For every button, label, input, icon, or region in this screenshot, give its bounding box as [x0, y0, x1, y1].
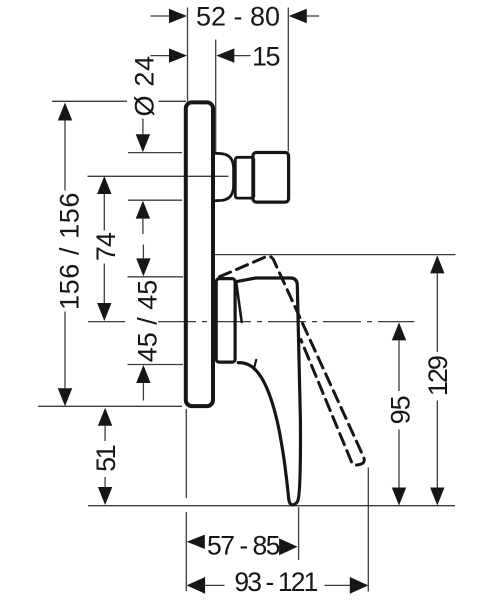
- dimension 15 arrow left: [169, 48, 187, 62]
- dimension 95 arrow bottom: [392, 488, 406, 506]
- extension line handle top y276.8: [128, 276, 184, 278]
- baseline y505.7: [88, 505, 455, 507]
- handle underside tick: [254, 360, 256, 370]
- escutcheon plate: [186, 102, 213, 406]
- dimension 15 arrow right: [216, 48, 234, 62]
- knob cap: [253, 153, 289, 203]
- dimension 57-85 arrow left: [187, 535, 205, 549]
- dimension 45/45 stem bottom: [142, 383, 144, 401]
- svg-text:57 - 85: 57 - 85: [207, 530, 280, 560]
- dimension 93-121 arrow left: [187, 577, 206, 594]
- extension line sleeve base x215.7: [215, 40, 217, 154]
- dimension dia24 stem top: [142, 119, 144, 135]
- svg-text:15: 15: [252, 41, 280, 71]
- dimension 74 line: [103, 194, 105, 303]
- knob ring: [235, 157, 254, 198]
- extension line bottom-left x186.3: [185, 409, 187, 591]
- dimension 57-85 arrow right: [279, 538, 298, 555]
- svg-text:52 - 80: 52 - 80: [196, 2, 280, 32]
- dimension 74 arrow top: [97, 176, 111, 194]
- dimension 156/156 arrow top: [58, 103, 72, 121]
- svg-text:93 - 121: 93 - 121: [234, 567, 317, 597]
- dimension 15 leader left: [151, 55, 170, 57]
- extension line handle tip x298.6: [298, 507, 300, 560]
- dimension 156/156 arrow bottom: [58, 388, 72, 406]
- dimension 45/45 stem top: [142, 245, 144, 259]
- dimension 52-80 leader left: [151, 15, 170, 17]
- dimension 45/45 arrow top: [136, 258, 150, 276]
- extension line plate back x187: [187, 8, 189, 102]
- dimension 95 line: [398, 340, 400, 487]
- dimension 51 line: [104, 426, 106, 488]
- extension line plate top y101: [52, 100, 186, 102]
- extension line knob bottom y200.2: [128, 199, 182, 201]
- dimension dia24 arrow top: [136, 134, 150, 152]
- dimension 129 arrow bottom: [430, 488, 444, 506]
- dimension 129 line: [436, 273, 438, 487]
- dimension 93-121 line left: [205, 584, 224, 586]
- svg-text:129: 129: [423, 356, 453, 396]
- dimension 51 arrow top: [98, 408, 112, 426]
- dimension 52-80 arrow left: [169, 9, 187, 23]
- extension line dashed tip x367.9: [367, 468, 369, 592]
- handle lever solid: [236, 278, 300, 505]
- handle base block: [216, 279, 235, 363]
- dimension 95 arrow top: [392, 322, 406, 340]
- svg-text:95: 95: [385, 396, 415, 424]
- dimension 45/45 arrow bottom: [136, 365, 150, 383]
- handle neck seam: [236, 283, 241, 322]
- dimension 129 arrow top: [430, 255, 444, 273]
- dimension 15 line: [234, 55, 250, 57]
- extension line dashed-lever top y254.6: [214, 254, 456, 256]
- knob centerline y176.3: [88, 175, 229, 177]
- dimension 93-121 arrow right: [350, 577, 369, 594]
- svg-text:51: 51: [91, 445, 121, 472]
- dimension 93-121 line right: [325, 584, 351, 586]
- handle lever dashed alternate position: [220, 256, 365, 465]
- dimension 74 arrow bottom: [97, 303, 111, 321]
- dimension 156/156 line: [64, 121, 66, 389]
- dimension dia24 stem bottom: [142, 219, 144, 234]
- dimension 51 arrow bottom: [98, 487, 112, 505]
- extension line knob front x288: [287, 8, 289, 152]
- dimension 52-80 arrow right: [289, 9, 307, 23]
- svg-text:156 / 156: 156 / 156: [55, 192, 85, 310]
- extension line handle base bottom y364.5: [128, 364, 184, 366]
- svg-text:74: 74: [91, 232, 121, 261]
- knob sleeve: [216, 153, 234, 200]
- svg-text:Ø 24: Ø 24: [130, 55, 160, 116]
- extension line y406.3: [38, 405, 182, 407]
- dimension 52-80 leader right: [307, 15, 319, 17]
- pivot centerline y321.6: [88, 321, 125, 323]
- extension line knob top y152.6: [128, 152, 182, 154]
- dimension dia24 arrow bottom: [136, 201, 150, 219]
